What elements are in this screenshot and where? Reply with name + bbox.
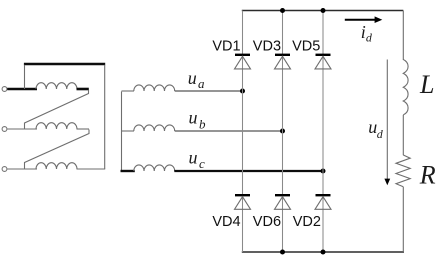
node phase c junction (321, 169, 326, 174)
wire diagonal winding B to terminal 3 node (25, 130, 90, 170)
wire diagonal winding A to terminal 2 node (25, 90, 89, 129)
svg-text:u: u (189, 148, 198, 168)
winding C coil (primary bottom) (36, 163, 77, 169)
wire bus to winding a (122, 90, 135, 92)
transformer primary terminal 3 (2, 167, 7, 172)
wire resistor to bottom rail (402, 187, 404, 252)
diode VD6 (275, 195, 291, 209)
wire bus to winding c (thick) (121, 170, 135, 172)
resistor R (396, 155, 410, 187)
inductor L (403, 60, 408, 115)
diode VD3 (275, 55, 291, 69)
wire inductor to resistor (402, 115, 404, 155)
node bottom rail / column b (280, 250, 285, 255)
wire delta right side down to winding C (104, 65, 106, 169)
diode VD2 (315, 195, 331, 209)
winding B coil (primary middle) (36, 123, 77, 129)
secondary neutral bus (121, 92, 123, 172)
wire phase c to bridge (thick) (174, 170, 323, 172)
winding a coil (secondary) (134, 85, 175, 91)
wire bus to winding b (122, 130, 135, 132)
svg-text:u: u (188, 68, 197, 88)
diode VD1 (235, 55, 251, 69)
winding A coil (primary top) (36, 83, 77, 89)
svg-text:L: L (419, 70, 434, 99)
node top rail / column c (321, 8, 326, 13)
wire winding A right stub (thick) (77, 88, 89, 91)
svg-text:u: u (189, 108, 198, 128)
wire top rail to inductor (402, 11, 404, 61)
node bottom rail / column c (321, 250, 326, 255)
svg-text:a: a (198, 76, 205, 91)
wire delta top link (thick) (24, 63, 105, 65)
transformer primary terminal 1 (2, 87, 7, 92)
diode VD4 (235, 195, 251, 209)
wire terminal1 to winding A (thick) (7, 88, 37, 91)
node phase a junction (240, 89, 245, 94)
diode VD5 (315, 55, 331, 69)
svg-text:d: d (366, 31, 373, 45)
svg-text:R: R (419, 161, 436, 190)
svg-text:VD6: VD6 (253, 214, 281, 230)
svg-text:b: b (199, 117, 206, 132)
wire winding C right stub (77, 168, 106, 170)
node top rail / column b (280, 8, 285, 13)
wire negative DC rail (bottom) (242, 251, 404, 253)
svg-text:c: c (199, 156, 205, 171)
arrow i_d current annotation (345, 16, 383, 23)
wire phase b to bridge (175, 130, 283, 132)
svg-text:VD1: VD1 (212, 38, 240, 54)
wire terminal2 to winding B (7, 128, 37, 130)
wire bridge column c (VD5/VD2) (322, 11, 324, 253)
wire bridge column b (VD3/VD6) (282, 11, 284, 253)
winding c coil (secondary) (134, 165, 175, 171)
wire positive DC rail (top) (242, 10, 403, 12)
wire terminal3 to winding C (7, 168, 37, 170)
wire phase a to bridge (175, 90, 243, 92)
svg-text:d: d (377, 127, 384, 141)
arrow u_d voltage annotation (384, 60, 390, 186)
transformer primary terminal 2 (2, 127, 7, 132)
svg-text:VD2: VD2 (293, 214, 321, 230)
svg-text:VD3: VD3 (253, 38, 281, 54)
wire top link down to terminal 1 node (24, 65, 26, 89)
wire bridge column a (VD1/VD4) (242, 11, 244, 253)
node phase b junction (280, 129, 285, 134)
svg-text:VD5: VD5 (292, 38, 320, 54)
wire winding B right stub (77, 128, 90, 130)
winding b coil (secondary) (134, 125, 175, 131)
svg-text:VD4: VD4 (212, 214, 240, 230)
